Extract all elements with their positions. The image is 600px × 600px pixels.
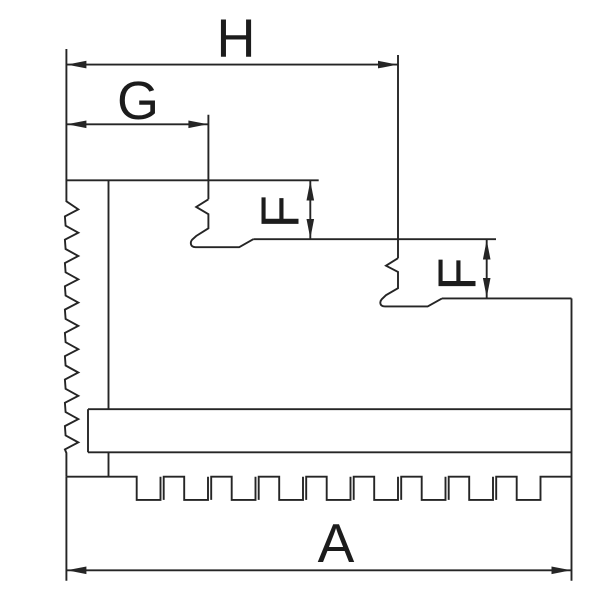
arrowhead F1 up (307, 181, 315, 201)
serrated clamping face left (65, 201, 78, 476)
arrowhead A left (67, 567, 87, 575)
inner body line lower (108, 452, 110, 476)
inner body line upper (108, 180, 110, 409)
guide bar bottom edge (88, 451, 572, 453)
svg-text:A: A (318, 512, 355, 574)
arrowhead H left (67, 61, 87, 69)
jaw top edge with F ref extension (66, 179, 318, 181)
dimension line A (66, 569, 571, 571)
svg-text:G: G (117, 71, 159, 131)
arrowhead F2 down (483, 278, 491, 298)
bottom serration teeth (66, 477, 571, 500)
extension line G right / step 1 edge (207, 115, 209, 200)
step 1 serrated profile with hook (191, 199, 253, 247)
arrowhead A right (552, 567, 572, 575)
guide bar left edge (87, 409, 89, 452)
right edge / A extension line (571, 298, 573, 580)
extension line H right / step 2 edge (397, 55, 399, 258)
extension line left bottom (A datum) (65, 477, 67, 581)
arrowhead G left (67, 121, 87, 129)
dimension F2 (486, 240, 488, 298)
svg-text:F: F (428, 258, 488, 291)
guide bar top edge (88, 408, 572, 410)
left part edge upper (65, 180, 67, 203)
step 2 serrated profile with hook (380, 258, 442, 306)
arrowhead H right (378, 61, 398, 69)
step 2 surface (442, 297, 572, 299)
arrowhead G right (188, 121, 208, 129)
step 1 surface with F2 ref extension (253, 238, 496, 240)
arrowhead F2 up (483, 240, 491, 260)
svg-text:H: H (217, 9, 256, 69)
dimension F1 (309, 181, 311, 239)
arrowhead F1 down (307, 219, 315, 239)
dimension line H (66, 64, 398, 66)
extension line left (H/G/A datum) (65, 49, 67, 180)
dimension line G (66, 123, 208, 125)
svg-text:F: F (251, 195, 311, 228)
